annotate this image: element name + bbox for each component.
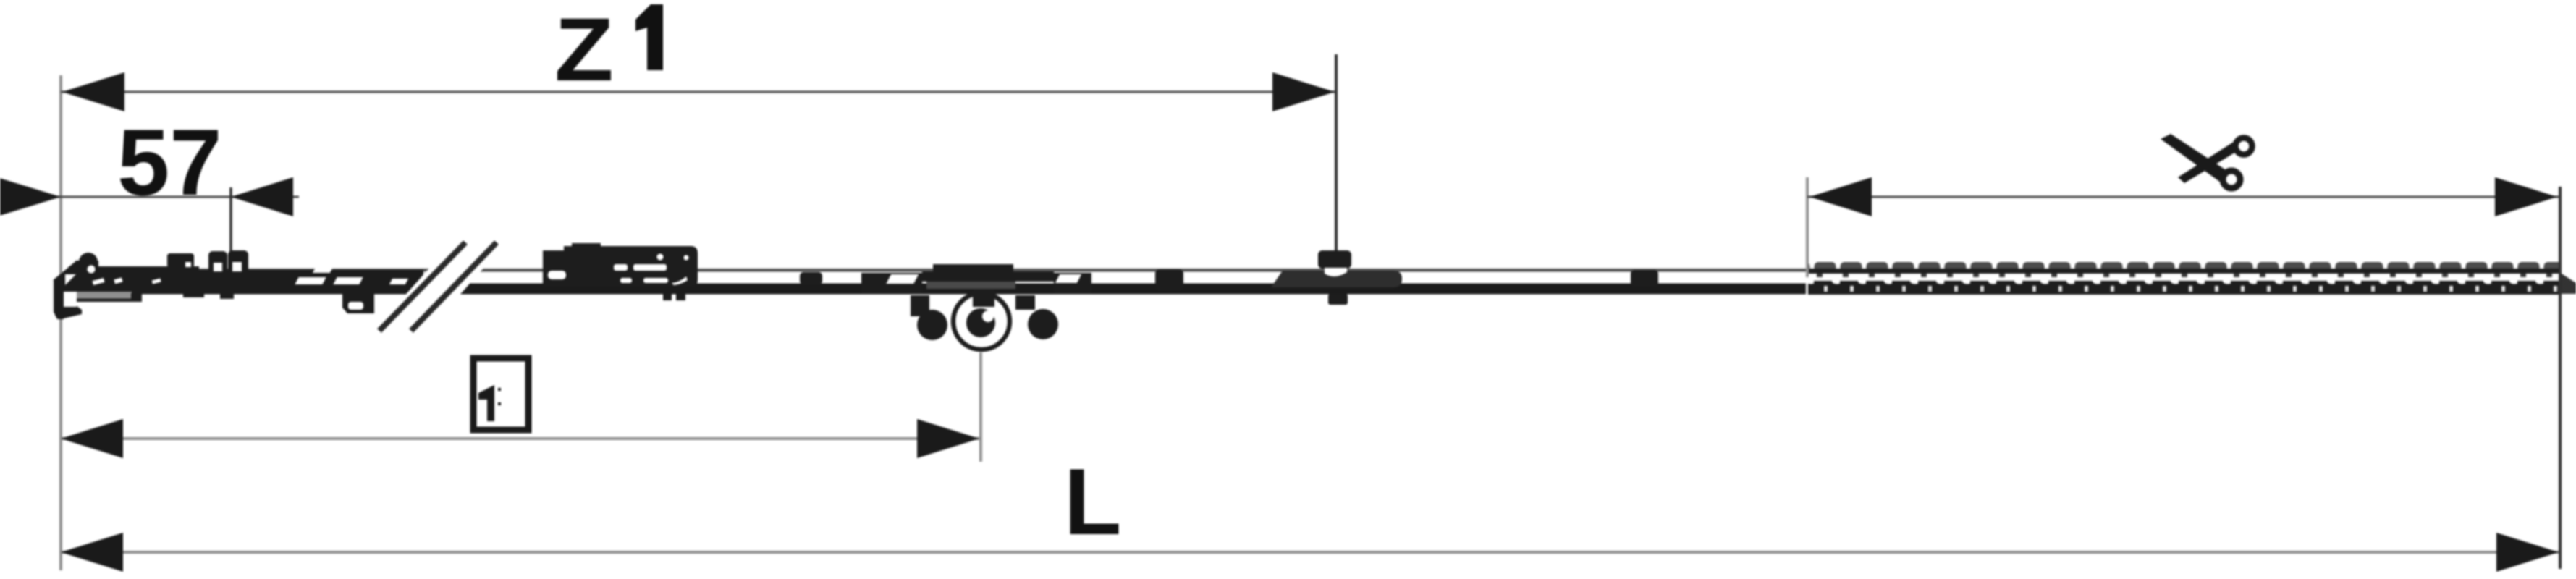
roller carriage: [861, 264, 1091, 350]
arrow Z1 left: [62, 72, 124, 111]
mushroom cam left: [208, 251, 227, 274]
screw marks: [92, 278, 104, 285]
left end cap slope: [55, 264, 77, 282]
arrow L left: [61, 533, 123, 572]
arrow 57 left: [0, 177, 61, 216]
arrow roller dim left: [61, 419, 123, 458]
left end cap wall: [54, 279, 64, 319]
svg-text:Z: Z: [554, 0, 614, 100]
extension line Z1 cam: [1335, 54, 1338, 255]
rivet knob: [75, 261, 85, 268]
mushroom cam right: [228, 250, 248, 274]
feet under left bar: [131, 293, 142, 302]
slider plate at Z1: [1271, 271, 1402, 287]
cap shoulder connector: [62, 278, 81, 292]
cam at Z1: [1318, 250, 1351, 305]
end cap white notch: [64, 292, 77, 307]
band thickening with slots beside carriage: [861, 273, 922, 294]
lower attachment left: [342, 294, 374, 313]
dimension line Z1: [61, 91, 1336, 93]
small block between housing and carriage: [800, 272, 822, 284]
digit 1 of label Z 1: [635, 4, 663, 70]
left arm and wheel: [911, 295, 929, 316]
arrow roller dim right: [917, 419, 979, 458]
dimension line 57: [0, 196, 299, 198]
svg-text:57: 57: [117, 109, 222, 215]
small block mid-right 2: [1631, 270, 1658, 287]
left end cap flange: [64, 304, 82, 318]
roller extension line: [979, 352, 982, 462]
left extension line: [59, 75, 62, 570]
gear housing: [543, 243, 698, 300]
arrow L right: [2496, 533, 2559, 572]
rack stub beyond cut line: [2562, 274, 2576, 294]
arrow cut right: [2495, 177, 2557, 216]
rail top edge: [69, 269, 1806, 272]
small block mid-right 1: [1155, 269, 1183, 290]
scissors icon: [2161, 134, 2252, 188]
cut dimension extension line left: [1806, 177, 1809, 277]
left solid bar: [69, 266, 199, 294]
top plate: [933, 264, 1013, 273]
extension line 57 cam: [229, 187, 232, 253]
arrow Z1 right: [1272, 72, 1335, 111]
rail bottom band: [69, 284, 1806, 295]
break gap mask: [366, 237, 511, 339]
svg-text:L: L: [1064, 449, 1121, 554]
arrow cut left: [1809, 177, 1872, 216]
info box: [473, 358, 528, 430]
center wheel: [953, 293, 1010, 350]
break line 2: [411, 242, 497, 331]
break line 1: [379, 242, 465, 331]
cut dimension line: [1807, 196, 2560, 198]
dimension line to roller: [61, 437, 979, 440]
rail group: [54, 250, 1806, 319]
right arm and wheel: [1015, 295, 1035, 310]
small block on rail: [167, 253, 194, 268]
arrow 57 right: [231, 177, 293, 216]
housing feet: [663, 294, 672, 300]
right extension line: [2559, 187, 2562, 569]
white slots in overlap zone: [295, 277, 326, 284]
end cap gray band: [77, 292, 132, 299]
dimension line L: [61, 551, 2559, 554]
rack toothed section: [1808, 257, 2560, 297]
